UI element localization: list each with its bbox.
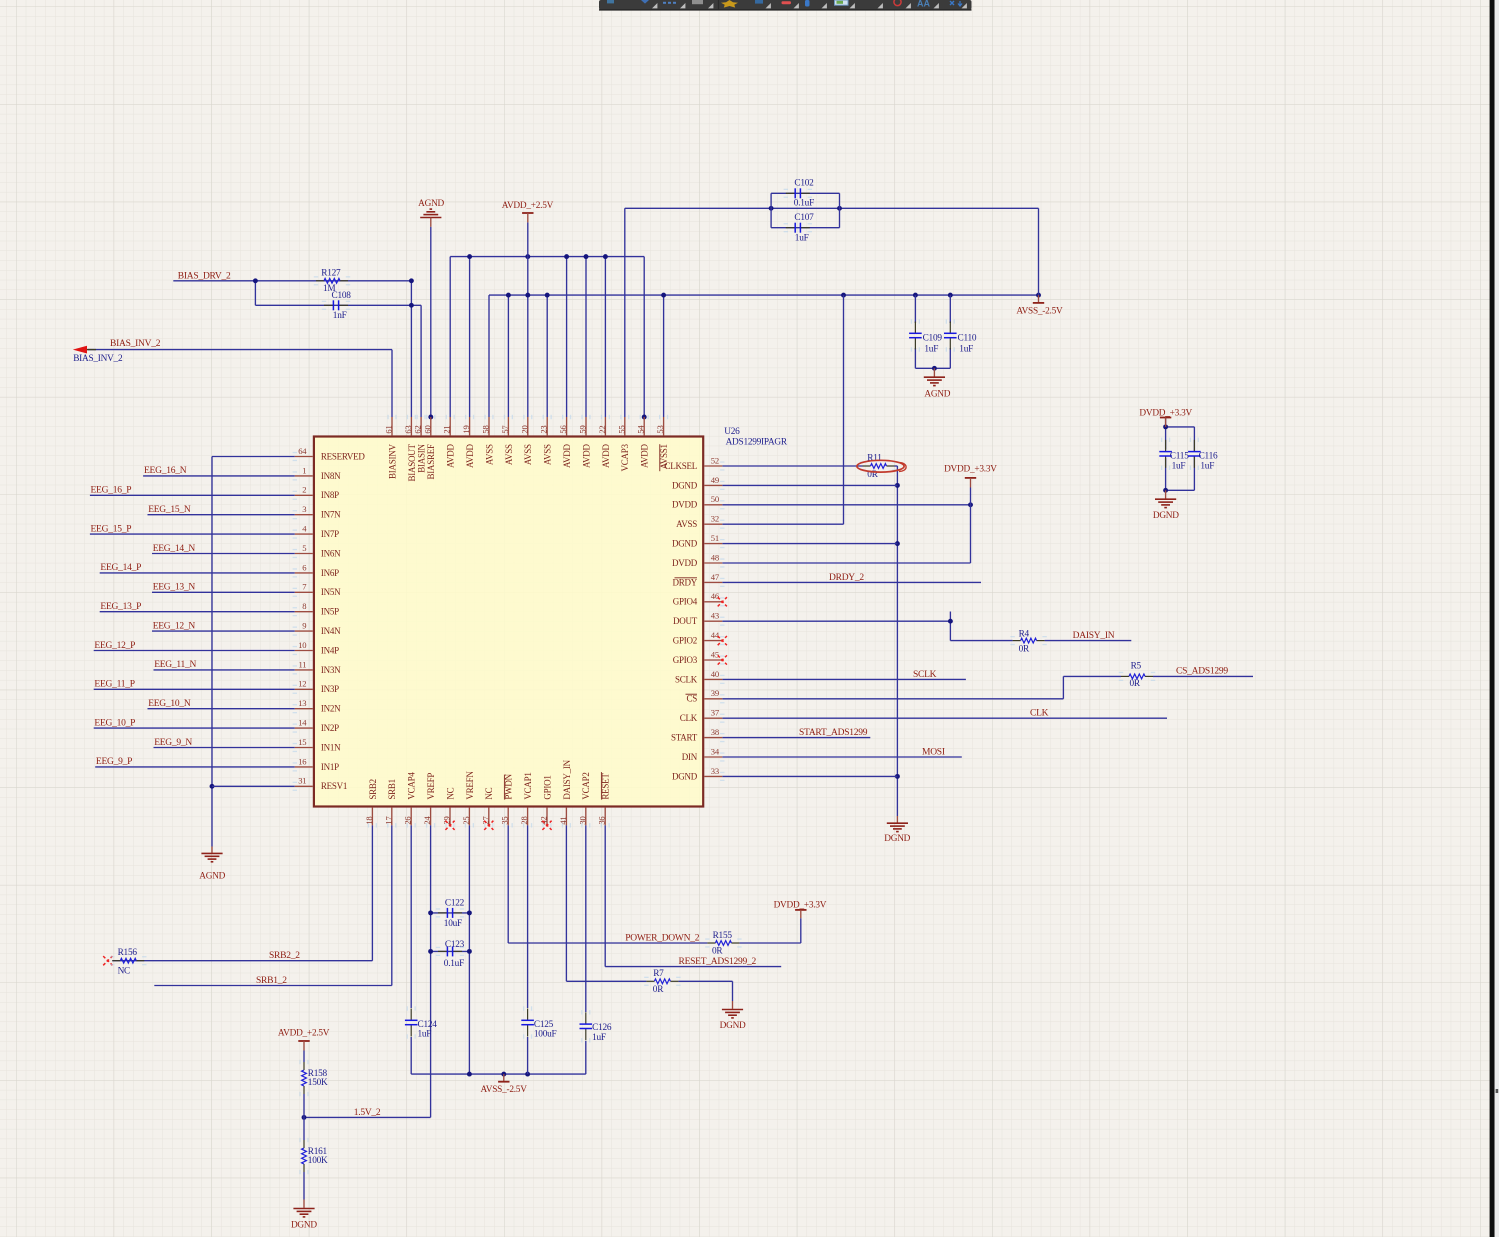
junction [584, 254, 589, 259]
svg-text:AVSS1: AVSS1 [659, 444, 669, 469]
capacitor C109 [909, 322, 922, 350]
junction [1163, 488, 1168, 493]
svg-text:RESERVED: RESERVED [321, 451, 366, 461]
svg-text:DGND: DGND [720, 1021, 746, 1031]
svg-text:1uF: 1uF [592, 1033, 606, 1043]
svg-text:150K: 150K [308, 1078, 328, 1088]
svg-text:AVSS_-2.5V: AVSS_-2.5V [1016, 306, 1063, 316]
svg-text:23: 23 [539, 426, 549, 434]
svg-text:DOUT: DOUT [673, 616, 698, 626]
svg-text:AGND: AGND [199, 872, 225, 882]
wire [391, 825, 393, 985]
wire [410, 281, 412, 417]
svg-text:10: 10 [298, 640, 306, 650]
svg-text:0R: 0R [653, 985, 664, 995]
svg-text:IN6P: IN6P [321, 568, 339, 578]
svg-text:EEG_12_N: EEG_12_N [153, 621, 196, 631]
wire [843, 295, 845, 524]
wire [90, 494, 295, 496]
svg-text:10uF: 10uF [444, 919, 462, 929]
wire [527, 1037, 529, 1074]
svg-text:IN6N: IN6N [321, 548, 341, 558]
wire [100, 572, 295, 574]
wire [527, 295, 529, 417]
wire [148, 708, 295, 710]
pin 10 IN4P [295, 650, 313, 652]
wire [722, 775, 897, 777]
wire [430, 825, 432, 1117]
pin 6 IN6P [295, 572, 313, 574]
junction [467, 949, 472, 954]
wire [371, 825, 373, 960]
application toolbar [599, 0, 972, 11]
pin 28 VCAP1 [527, 808, 529, 826]
svg-text:AVSS: AVSS [484, 444, 494, 465]
resistor R5 [1121, 674, 1153, 679]
wire [722, 504, 970, 506]
wire [469, 257, 471, 417]
power bar AVDD [522, 212, 533, 214]
pin 32 AVSS [704, 523, 722, 525]
wire [154, 985, 391, 987]
svg-text:EEG_9_P: EEG_9_P [96, 757, 132, 767]
pin 34 DIN [704, 756, 722, 758]
pin 46 GPIO4 [704, 601, 722, 603]
ground DGND r7 [732, 1001, 734, 1009]
svg-text:SRB1: SRB1 [387, 779, 397, 800]
svg-text:R5: R5 [1131, 662, 1142, 672]
junction [501, 1072, 506, 1077]
svg-text:AVSS_-2.5V: AVSS_-2.5V [481, 1085, 528, 1095]
wire [431, 912, 470, 914]
wire [303, 1051, 305, 1063]
svg-text:1: 1 [302, 465, 306, 475]
svg-text:48: 48 [711, 552, 719, 562]
svg-text:47: 47 [711, 572, 720, 582]
capacitor C125 [521, 1009, 534, 1037]
svg-text:C123: C123 [445, 940, 465, 950]
svg-text:IN8P: IN8P [321, 490, 339, 500]
svg-text:C115: C115 [1170, 451, 1189, 461]
junction [769, 206, 774, 211]
svg-text:BIAS_DRV_2: BIAS_DRV_2 [178, 271, 231, 281]
wire [94, 688, 295, 690]
wire [722, 465, 862, 467]
pin 50 DVDD [704, 504, 722, 506]
svg-text:1uF: 1uF [924, 345, 938, 355]
svg-text:MOSI: MOSI [922, 747, 945, 757]
pin 47 DRDY [704, 581, 722, 583]
pin 35 PWDN [507, 808, 509, 826]
svg-text:17: 17 [383, 816, 393, 825]
svg-text:AGND: AGND [924, 389, 950, 399]
wire [722, 756, 962, 758]
svg-text:33: 33 [711, 766, 719, 776]
junction [661, 293, 666, 298]
svg-text:25: 25 [461, 817, 471, 825]
svg-text:EEG_15_N: EEG_15_N [148, 505, 191, 515]
power AVSS_-2.5V bottom [503, 1074, 505, 1081]
svg-text:CLK: CLK [1030, 709, 1049, 719]
svg-text:VCAP1: VCAP1 [523, 772, 533, 799]
power bar AVSS [1033, 302, 1044, 304]
svg-text:100K: 100K [308, 1156, 328, 1166]
pin 14 IN2P [295, 727, 313, 729]
svg-text:55: 55 [616, 426, 626, 434]
no-connect X [484, 821, 493, 830]
wire [949, 295, 951, 323]
wire [722, 737, 870, 739]
power bar DVDD3 [795, 909, 806, 911]
no-connect X [445, 821, 454, 830]
svg-text:U26: U26 [724, 427, 740, 437]
svg-text:36: 36 [597, 816, 607, 825]
svg-text:DGND: DGND [672, 539, 698, 549]
svg-text:60: 60 [422, 426, 432, 434]
wire [624, 208, 626, 417]
svg-text:19: 19 [461, 426, 471, 434]
junction [409, 303, 414, 308]
pin 41 DAISY_IN [565, 808, 567, 826]
pin 58 AVSS [488, 417, 490, 435]
no-connect X [718, 655, 727, 664]
capacitor C115 [1159, 440, 1172, 468]
wire [212, 456, 295, 458]
no-connect X [718, 636, 727, 645]
junction [932, 366, 937, 371]
resistor R156 [112, 958, 144, 963]
svg-text:R11: R11 [867, 453, 882, 463]
wire [895, 465, 898, 467]
svg-text:BIASOUT: BIASOUT [407, 443, 417, 481]
svg-text:VREFP: VREFP [426, 773, 436, 800]
svg-text:EEG_16_P: EEG_16_P [91, 486, 132, 496]
resistor R4 [1013, 638, 1045, 643]
wire [949, 348, 951, 368]
svg-text:DGND: DGND [884, 834, 910, 844]
svg-text:SRB2_2: SRB2_2 [269, 951, 300, 961]
svg-text:DGND: DGND [291, 1220, 317, 1230]
svg-text:GPIO3: GPIO3 [673, 655, 698, 665]
wire [896, 466, 898, 816]
capacitor C107 [786, 223, 810, 233]
svg-text:CLKSEL: CLKSEL [664, 461, 697, 471]
svg-text:DIN: DIN [682, 752, 698, 762]
wire [1193, 427, 1195, 452]
svg-text:61: 61 [384, 426, 394, 434]
junction [948, 619, 953, 624]
wire [112, 960, 372, 962]
svg-text:BIASINV: BIASINV [387, 443, 397, 479]
junction [525, 254, 530, 259]
wire [148, 514, 295, 516]
svg-text:NC: NC [484, 787, 494, 799]
resistor R127 [316, 278, 348, 283]
svg-text:2: 2 [302, 485, 306, 495]
junction [506, 293, 511, 298]
wire [420, 305, 422, 417]
svg-text:42: 42 [539, 817, 549, 825]
pin 59 AVDD [585, 417, 587, 435]
pin 39 CS [704, 698, 722, 700]
wire [722, 620, 950, 622]
pin 24 VREFP [430, 808, 432, 826]
svg-text:EEG_13_N: EEG_13_N [153, 583, 196, 593]
pin 29 NC [449, 808, 451, 826]
wire [1038, 208, 1040, 295]
pin 43 DOUT [704, 620, 722, 622]
junction [467, 254, 472, 259]
svg-text:DVDD: DVDD [672, 558, 698, 568]
wire [722, 678, 966, 680]
resistor R158 [302, 1062, 307, 1094]
pin 8 IN5P [295, 611, 313, 613]
svg-text:GPIO2: GPIO2 [673, 636, 697, 646]
wire [722, 543, 897, 545]
pin 7 IN5N [295, 591, 313, 593]
pin 3 IN7N [295, 514, 313, 516]
svg-text:ADS1299IPAGR: ADS1299IPAGR [726, 438, 788, 448]
svg-text:BIAS_INV_2: BIAS_INV_2 [73, 354, 123, 364]
svg-text:DRDY: DRDY [672, 577, 697, 587]
junction [895, 774, 900, 779]
capacitor C102 [786, 188, 810, 198]
svg-text:IN1N: IN1N [321, 742, 341, 752]
window edge right [1490, 0, 1495, 1237]
capacitor C126 [580, 1012, 593, 1040]
power bar DVDD [965, 477, 976, 479]
ground DGND right rail [896, 816, 898, 823]
svg-text:SCLK: SCLK [913, 670, 937, 680]
svg-text:29: 29 [442, 817, 452, 825]
wire [1062, 676, 1064, 698]
port BIAS_INV_2 [73, 346, 87, 354]
svg-text:BIASREF: BIASREF [426, 444, 436, 480]
svg-text:18: 18 [364, 817, 374, 825]
svg-text:IN7N: IN7N [321, 510, 341, 520]
wire [410, 1037, 412, 1074]
svg-text:CS: CS [686, 694, 697, 704]
svg-text:PWDN: PWDN [504, 773, 514, 799]
svg-text:53: 53 [655, 426, 665, 434]
junction [564, 254, 569, 259]
svg-text:SCLK: SCLK [675, 674, 698, 684]
svg-text:14: 14 [298, 718, 307, 728]
wire [663, 295, 665, 417]
svg-text:52: 52 [711, 455, 719, 465]
wire [527, 222, 529, 295]
svg-text:IN8N: IN8N [321, 471, 341, 481]
svg-text:AVDD_+2.5V: AVDD_+2.5V [278, 1029, 330, 1039]
junction [948, 293, 953, 298]
wire [211, 457, 213, 847]
pin 31 RESV1 [295, 785, 313, 787]
svg-text:RESET: RESET [601, 773, 611, 800]
junction [525, 1072, 530, 1077]
svg-text:VCAP3: VCAP3 [620, 443, 630, 471]
wire [770, 193, 772, 227]
svg-text:41: 41 [558, 817, 568, 825]
ground AGND3 [201, 853, 222, 861]
svg-text:0.1uF: 0.1uF [444, 959, 464, 969]
wire [732, 981, 734, 1001]
wire [1166, 489, 1195, 491]
svg-text:22: 22 [597, 426, 607, 434]
wire [800, 918, 802, 943]
svg-text:AVSS: AVSS [523, 444, 533, 465]
svg-text:9: 9 [302, 621, 306, 631]
ground AGND c109 [933, 368, 935, 376]
svg-text:15: 15 [298, 737, 306, 747]
junction [409, 278, 414, 283]
svg-text:GPIO1: GPIO1 [542, 775, 552, 799]
svg-text:EEG_15_P: EEG_15_P [91, 524, 132, 534]
pin 23 AVSS [546, 417, 548, 435]
svg-text:IN1P: IN1P [321, 762, 339, 772]
svg-text:0.1uF: 0.1uF [794, 199, 814, 209]
svg-text:IN7P: IN7P [321, 529, 339, 539]
svg-text:C102: C102 [794, 179, 814, 189]
wire [94, 727, 295, 729]
pin 15 IN1N [295, 747, 313, 749]
svg-text:45: 45 [711, 649, 719, 659]
pin 27 NC [488, 808, 490, 826]
wire [643, 257, 645, 417]
svg-text:24: 24 [422, 816, 432, 825]
junction [642, 415, 647, 420]
svg-text:DAISY_IN: DAISY_IN [1073, 631, 1115, 641]
ground AGND2 [420, 209, 441, 217]
wire [914, 295, 916, 323]
wire [585, 257, 587, 417]
svg-text:64: 64 [298, 446, 307, 456]
junction [210, 784, 215, 789]
wire [1193, 456, 1195, 490]
svg-text:BIASIN: BIASIN [417, 443, 427, 472]
power bar AVSS2 [498, 1081, 509, 1083]
svg-text:100uF: 100uF [534, 1029, 557, 1039]
pin 1 IN8N [295, 475, 313, 477]
pin 45 GPIO3 [704, 659, 722, 661]
svg-text:EEG_12_P: EEG_12_P [94, 641, 135, 651]
power bar AVDD2 [298, 1040, 309, 1042]
svg-text:12: 12 [298, 679, 306, 689]
svg-text:AVDD: AVDD [581, 443, 591, 468]
ground DGND divider [303, 1200, 305, 1208]
pin 38 START [704, 737, 722, 739]
pin 57 AVSS [507, 417, 509, 435]
svg-text:30: 30 [577, 817, 587, 825]
svg-text:20: 20 [519, 426, 529, 434]
pin 48 DVDD [704, 562, 722, 564]
svg-text:1uF: 1uF [1200, 462, 1214, 472]
svg-text:START: START [671, 733, 698, 743]
svg-text:C124: C124 [418, 1020, 438, 1030]
ground DGND4 [293, 1209, 314, 1217]
svg-text:NC: NC [445, 787, 455, 799]
no-connect X [718, 597, 727, 606]
pin 2 IN8P [295, 494, 313, 496]
capacitor C124 [405, 1009, 418, 1037]
wire [722, 581, 981, 583]
wire [605, 966, 781, 968]
wire [722, 698, 1063, 700]
wire [391, 350, 393, 417]
svg-text:EEG_10_P: EEG_10_P [94, 718, 135, 728]
svg-text:SRB1_2: SRB1_2 [256, 976, 287, 986]
ground DGND3 [722, 1010, 743, 1018]
capacitor C116 [1188, 440, 1201, 468]
no-connect X [103, 956, 112, 965]
wire [449, 257, 451, 417]
ground AGND1 [924, 377, 945, 385]
resistor R11 [863, 464, 895, 469]
pin 37 CLK [704, 717, 722, 719]
wire [1153, 675, 1253, 677]
svg-text:R4: R4 [1019, 629, 1030, 639]
pin 25 VREFN [468, 808, 470, 826]
svg-text:C122: C122 [445, 899, 465, 909]
svg-text:8: 8 [302, 601, 306, 611]
resistor R7 [646, 979, 678, 984]
pin 36 RESET [604, 808, 606, 826]
wire [410, 825, 412, 1008]
wire [303, 1094, 305, 1140]
pin 62 BIASIN [420, 417, 422, 435]
svg-text:IN3N: IN3N [321, 665, 341, 675]
svg-text:51: 51 [711, 533, 719, 543]
svg-text:VREFN: VREFN [465, 771, 475, 800]
svg-text:AVDD: AVDD [465, 443, 475, 468]
junction [913, 293, 918, 298]
svg-text:VCAP4: VCAP4 [407, 772, 417, 800]
svg-text:AVSS: AVSS [504, 444, 514, 465]
svg-text:IN4P: IN4P [321, 645, 339, 655]
svg-text:56: 56 [558, 425, 568, 434]
power AVSS_-2.5V right top [1038, 295, 1040, 302]
no-connect X [542, 821, 551, 830]
wire [88, 349, 392, 351]
svg-text:R127: R127 [321, 269, 341, 279]
wire [970, 488, 972, 564]
svg-text:AVDD: AVDD [640, 443, 650, 468]
pin 13 IN2N [295, 708, 313, 710]
junction [428, 415, 433, 420]
wire [152, 553, 295, 555]
svg-text:AVSS: AVSS [543, 444, 553, 465]
ground DGND2 [887, 823, 908, 831]
pin 9 IN4N [295, 630, 313, 632]
wire [566, 257, 568, 417]
pin 49 DGND [704, 484, 722, 486]
svg-text:43: 43 [711, 611, 719, 621]
pin 5 IN6N [295, 553, 313, 555]
wire [771, 192, 839, 194]
wire [411, 1073, 586, 1075]
svg-text:IN2P: IN2P [321, 723, 339, 733]
junction [302, 1115, 307, 1120]
svg-text:CS_ADS1299: CS_ADS1299 [1176, 667, 1228, 677]
pin 22 AVDD [604, 417, 606, 435]
svg-text:IN3P: IN3P [321, 684, 339, 694]
svg-text:EEG_14_N: EEG_14_N [153, 544, 196, 554]
wire [949, 612, 951, 641]
wire [739, 942, 800, 944]
pin 4 IN7P [295, 533, 313, 535]
svg-text:EEG_13_P: EEG_13_P [100, 602, 141, 612]
svg-text:28: 28 [519, 817, 529, 825]
svg-text:1uF: 1uF [1172, 462, 1186, 472]
